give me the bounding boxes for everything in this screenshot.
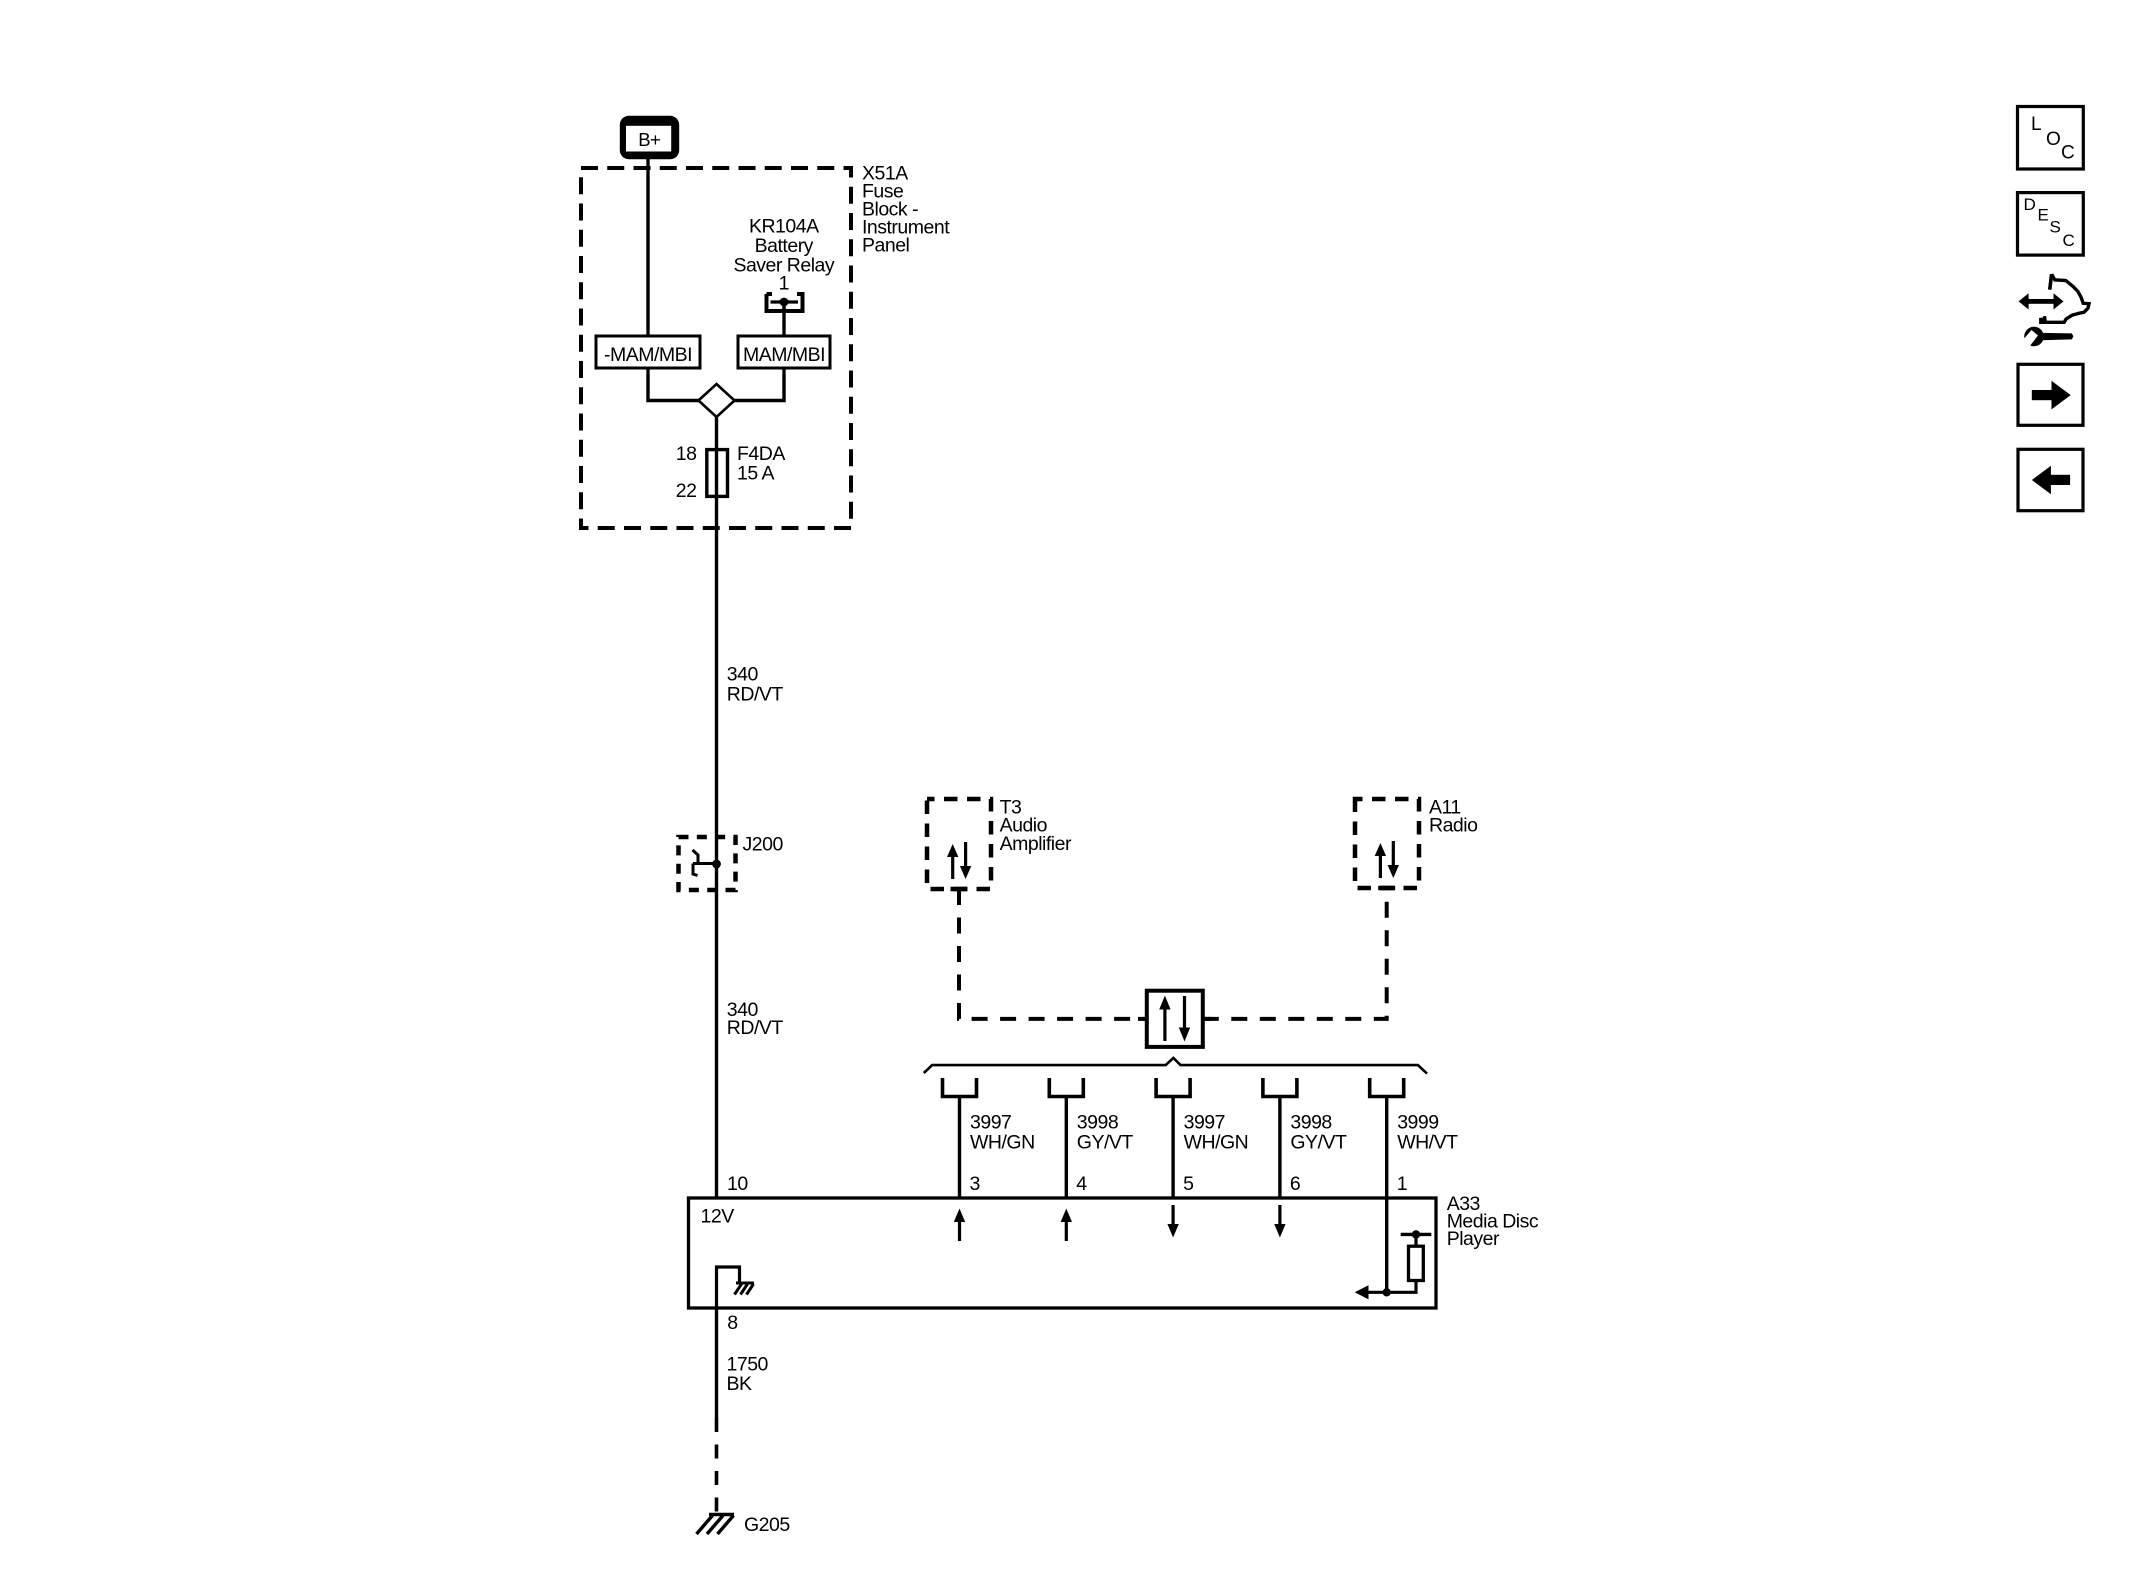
svg-text:4: 4 [1076, 1173, 1087, 1195]
bidirectional arrows inside A11 [1380, 841, 1393, 878]
splice J200 hook symbol [693, 850, 717, 876]
resistor node dot [1412, 1230, 1420, 1238]
svg-text:3999: 3999 [1397, 1112, 1438, 1134]
wire 340 RD/VT : junction through fuse F4DA down to A33 pin 10 [715, 417, 718, 1198]
svg-text:22: 22 [676, 480, 697, 502]
dashed wire to G205 [715, 1418, 719, 1515]
wire 3998 GY/VT to A33 pin 6 [1278, 1097, 1281, 1199]
svg-text:B+: B+ [638, 129, 660, 150]
wire -MAM/MBI to junction [648, 368, 699, 401]
label 3999 WH/VT [1397, 1112, 1458, 1154]
svg-text:D: D [2024, 195, 2036, 214]
connector repair icon (double arrow, terminal outline, wrench) [2019, 274, 2089, 346]
wire 1750 BK below A33 [715, 1308, 718, 1418]
dashed link junction box to A11 [1203, 888, 1387, 1019]
svg-text:3998: 3998 [1077, 1112, 1118, 1134]
svg-text:340: 340 [727, 663, 759, 685]
wire MAM/MBI to junction [734, 368, 784, 401]
label 3997 WH/GN [1184, 1112, 1249, 1154]
internal chassis ground of A33 (pin 8) [717, 1267, 755, 1308]
forward arrow button [2018, 364, 2083, 425]
connector pin cup for circuit 3999 (pin 1) [1370, 1078, 1404, 1097]
label A33 Media Disc Player [1447, 1193, 1539, 1250]
component T3 Audio Amplifier dashed box [927, 799, 991, 889]
svg-text:O: O [2046, 129, 2060, 150]
svg-text:S: S [2050, 218, 2061, 237]
wire 3997 WH/GN to A33 pin 3 [958, 1097, 961, 1199]
data link junction box with arrows [1138, 1017, 1147, 1021]
node junction dot pin 1 [1383, 1288, 1391, 1296]
input arrow pin 3 [958, 1221, 961, 1241]
svg-text:Amplifier: Amplifier [1000, 833, 1072, 855]
back arrow button [2018, 449, 2083, 510]
label 3998 GY/VT [1077, 1112, 1134, 1154]
label 340 RD/VT (upper) [727, 663, 784, 705]
wire 3999 WH/VT to A33 pin 1 [1385, 1097, 1388, 1199]
connector pin cup for circuit 3997 (pin 3) [943, 1078, 977, 1097]
dashed link T3 to junction box [959, 889, 1147, 1019]
relay contact terminal KR104A pin 1 [767, 294, 803, 311]
label X51A Fuse Block - Instrument Panel [862, 163, 950, 257]
svg-text:L: L [2031, 114, 2041, 135]
svg-text:C: C [2063, 231, 2075, 250]
bidirectional arrows inside T3 [953, 842, 966, 879]
svg-text:1: 1 [1397, 1173, 1407, 1195]
DESC button [2018, 193, 2084, 256]
wire relay to MAM/MBI [782, 302, 785, 337]
label A11 Radio [1429, 796, 1478, 836]
bus bar -MAM/MBI [596, 336, 700, 368]
svg-text:3: 3 [970, 1173, 980, 1195]
svg-text:8: 8 [727, 1312, 737, 1334]
fuse block X51A dashed outline [581, 168, 851, 528]
fuse F4DA 15 A [707, 450, 728, 497]
label 3997 WH/GN [970, 1112, 1035, 1154]
label T3 Audio Amplifier [1000, 796, 1072, 854]
svg-text:18: 18 [676, 443, 697, 465]
internal signal arrow (left) [1368, 1291, 1387, 1294]
svg-text:12V: 12V [701, 1206, 735, 1228]
svg-text:E: E [2038, 206, 2049, 225]
connector pin cup for circuit 3997 (pin 5) [1156, 1078, 1190, 1097]
svg-text:3997: 3997 [1184, 1112, 1225, 1134]
svg-text:WH/GN: WH/GN [970, 1131, 1035, 1153]
svg-text:J200: J200 [743, 834, 784, 856]
svg-text:BK: BK [727, 1373, 753, 1395]
svg-text:MAM/MBI: MAM/MBI [743, 344, 825, 366]
internal pull-up resistor [1387, 1234, 1432, 1292]
junction diamond [699, 384, 735, 417]
component A33 Media Disc Player box [689, 1198, 1437, 1308]
svg-text:15 A: 15 A [737, 462, 775, 484]
bus bar MAM/MBI [738, 336, 830, 368]
connector pin cup for circuit 3998 (pin 4) [1049, 1078, 1083, 1097]
ground G205 chassis ground symbol [697, 1515, 735, 1535]
svg-text:WH/GN: WH/GN [1184, 1131, 1249, 1153]
connector pin cup for circuit 3998 (pin 6) [1263, 1078, 1297, 1097]
svg-text:RD/VT: RD/VT [727, 1017, 784, 1039]
LOC button [2018, 107, 2084, 170]
svg-text:Panel: Panel [862, 234, 910, 256]
bottom centre dash of A11 box [1378, 886, 1395, 891]
label 3998 GY/VT [1290, 1112, 1347, 1154]
svg-text:GY/VT: GY/VT [1290, 1131, 1347, 1153]
wire 3998 GY/VT to A33 pin 4 [1065, 1097, 1068, 1199]
svg-text:GY/VT: GY/VT [1077, 1131, 1134, 1153]
svg-text:Radio: Radio [1429, 815, 1478, 837]
svg-text:Player: Player [1447, 1228, 1500, 1250]
wire 3997 WH/GN to A33 pin 5 [1171, 1097, 1174, 1199]
svg-text:10: 10 [727, 1173, 748, 1195]
svg-text:-MAM/MBI: -MAM/MBI [604, 344, 692, 366]
splice J200 dashed box [679, 837, 736, 890]
component A11 Radio dashed box [1355, 799, 1419, 888]
svg-text:C: C [2061, 143, 2074, 164]
B+ power terminal [620, 116, 679, 159]
svg-text:1: 1 [779, 273, 789, 295]
svg-text:3997: 3997 [970, 1112, 1011, 1134]
bottom centre dash of T3 box [951, 887, 968, 892]
svg-text:5: 5 [1183, 1173, 1194, 1195]
output arrow pin 5 [1171, 1205, 1174, 1225]
label F4DA 15 A [737, 443, 785, 484]
output arrow pin 6 [1278, 1205, 1281, 1225]
svg-text:3998: 3998 [1290, 1112, 1331, 1134]
wire B+ to -MAM/MBI bus [646, 158, 649, 336]
label 340 RD/VT (lower) [727, 999, 784, 1039]
label 1750 BK [727, 1353, 769, 1395]
wire pin 1 to internal node [1385, 1198, 1388, 1292]
input arrow pin 4 [1065, 1221, 1068, 1241]
svg-text:6: 6 [1290, 1173, 1300, 1195]
svg-text:RD/VT: RD/VT [727, 683, 784, 705]
svg-text:G205: G205 [744, 1514, 790, 1536]
label KR104A Battery Saver Relay [733, 216, 834, 277]
harness brace [924, 1058, 1427, 1074]
svg-text:WH/VT: WH/VT [1397, 1131, 1458, 1153]
